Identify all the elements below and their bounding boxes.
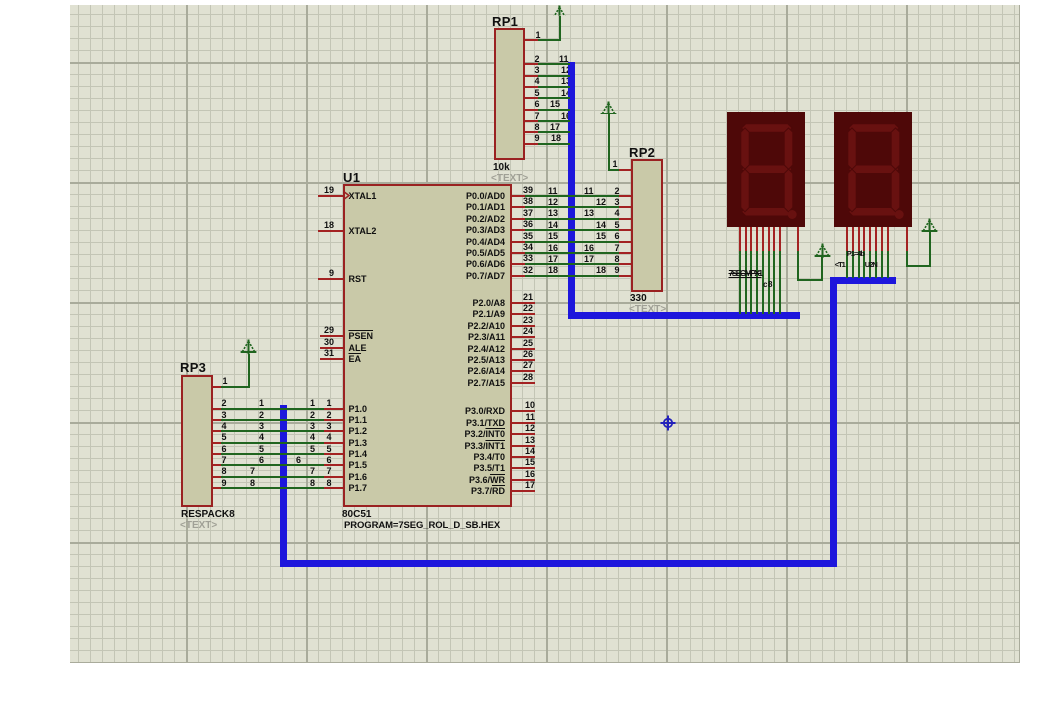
net label 8 right [310, 479, 315, 488]
RP1 pin number 1 [536, 31, 541, 40]
net label 2 right [310, 411, 315, 420]
pin number 32 [473, 266, 533, 275]
pin name P1.6 [349, 473, 368, 482]
pin number 33 [473, 254, 533, 263]
pin name P0.3 [445, 226, 505, 235]
pin name P2.3 [445, 333, 505, 342]
D2 segment pin 5 stub [869, 227, 871, 252]
U1 P2.0 stub [512, 302, 536, 304]
net label 13 mid [584, 209, 594, 218]
wire RP3 to U1 P1.3 [221, 442, 324, 444]
net label 15 [550, 100, 560, 109]
U1 P1.0 stub [324, 408, 343, 410]
RP3 pin 4 stub [213, 430, 221, 432]
U1 P1.5 stub [324, 464, 343, 466]
U1 pin 31 (EA) stub [320, 358, 343, 360]
pin number 27 [473, 361, 533, 370]
pin name P3.4 [445, 453, 505, 462]
U1 P2.4 stub [512, 348, 536, 350]
resistor pack RP3 [181, 375, 213, 508]
RP2 pin number 3 [615, 198, 620, 207]
wire U1 P0.5 to RP2 [525, 252, 619, 254]
U1 P3.0 stub [512, 410, 536, 412]
U1 pin number 4 [327, 433, 332, 442]
value RESPACK8 [181, 510, 235, 520]
net label 18 [551, 134, 561, 143]
U1 P0.3 stub [512, 229, 525, 231]
D1 segment pin 3 wire to bus [750, 251, 752, 314]
pin name P3.2 [445, 430, 505, 439]
RP3 pin number 5 [222, 433, 227, 442]
pin name P0.5 [445, 249, 505, 258]
RP1 pin number 3 [535, 66, 540, 75]
RP1 pin number 9 [535, 134, 540, 143]
wire to power A3 [798, 279, 823, 281]
D2 common wire down [906, 251, 908, 267]
net label 17 [548, 255, 558, 264]
D2 segment pin 7 stub [881, 227, 883, 252]
property text RP2 [629, 305, 666, 315]
U1 P2.5 stub [512, 359, 536, 361]
U1 P3.6 stub [512, 479, 536, 481]
pin name RST [349, 275, 367, 284]
net label 16 [561, 112, 571, 121]
U1 pin number 8 [327, 479, 332, 488]
pin number 36 [473, 220, 533, 229]
wire RP1 pin 2 to bus [538, 63, 570, 65]
RP1 pin 5 stub [525, 97, 539, 99]
pin name P2.4 [445, 345, 505, 354]
net label 3 right [310, 422, 315, 431]
pin name ALE [349, 344, 367, 353]
wire to power A5 [907, 265, 931, 267]
blue bus wire: right vertical [830, 277, 837, 567]
pin name P3.1 [445, 419, 505, 428]
pin name XTAL1 [349, 192, 377, 201]
D2 small text2 [865, 261, 877, 269]
wire RP3 to U1 P1.6 [221, 476, 324, 478]
D2 segment pin 3 wire to bus [858, 251, 860, 278]
U1 P3.4 stub [512, 456, 536, 458]
RP3 pin number 6 [222, 445, 227, 454]
RP2 pin 2 stub [619, 195, 631, 197]
net label 6 [259, 456, 264, 465]
U1 P3.1 stub [512, 422, 536, 424]
net label 2 [259, 411, 264, 420]
pin name P1.2 [349, 427, 368, 436]
U1 P2.7 stub [512, 382, 536, 384]
RP3 pin number 4 [222, 422, 227, 431]
U1 P1.7 stub [324, 487, 343, 489]
pin name P2.0 [445, 299, 505, 308]
blue bus wire: RP1 bus vertical [568, 62, 575, 320]
pin name P0.7 [445, 272, 505, 281]
U1 pin number 6 [327, 456, 332, 465]
RP3 pin number 1 [223, 377, 228, 386]
RP1 pin 9 stub [525, 143, 539, 145]
D1 segment pin 1 wire to bus [739, 251, 741, 314]
D2 segment pin 7 wire to bus [881, 251, 883, 278]
wire RP3 to U1 P1.0 [221, 408, 324, 410]
RP2 pin 6 stub [619, 241, 631, 243]
wire RP3 to U1 P1.1 [221, 419, 324, 421]
RP1 pin number 5 [535, 89, 540, 98]
RP1 pin number 6 [535, 100, 540, 109]
7-segment display D1 (left) [727, 112, 805, 227]
pin name P0.0 [445, 192, 505, 201]
net label 5 [259, 445, 264, 454]
U1 P2.6 stub [512, 370, 536, 372]
power symbol A1 (VCC above RP1) [551, 5, 568, 16]
wire up to power arrow A1 [559, 16, 561, 41]
RP2 pin 1 stub [619, 169, 632, 171]
net label 14 [548, 221, 558, 230]
pin number 11 [475, 413, 535, 422]
pin name P0.4 [445, 238, 505, 247]
D2 segment pin 8 stub [887, 227, 889, 252]
pin number 9 [274, 269, 334, 278]
pin name P3.5 [445, 464, 505, 473]
pin number 34 [473, 243, 533, 252]
net label 11 [548, 187, 558, 196]
RP3 pin 7 stub [213, 464, 221, 466]
net label 7 right [310, 467, 315, 476]
RP2 pin 3 stub [619, 206, 631, 208]
blue bus wire: horizontal under D2 [830, 277, 897, 284]
net label 4 [259, 433, 264, 442]
net label 12 [548, 198, 558, 207]
U1 P1.3 stub [324, 442, 343, 444]
pin number 12 [475, 424, 535, 433]
D1 segment pin 2 stub [745, 227, 747, 251]
wire up to power arrow A3 [821, 257, 823, 280]
pin name P2.7 [445, 379, 505, 388]
RP1 pin 3 stub [525, 75, 539, 77]
D2 segment pin 2 stub [852, 227, 854, 252]
pin number 25 [473, 339, 533, 348]
RP1 pin 2 stub [525, 63, 539, 65]
U1 pin 29 (PSEN) stub [320, 335, 343, 337]
D1 segment pin 7 stub [773, 227, 775, 251]
pin number 31 [274, 349, 334, 358]
U1 P0.1 stub [512, 206, 525, 208]
net label 15 mid [596, 232, 606, 241]
net label 12 mid [596, 198, 606, 207]
U1 P0.0 stub [512, 195, 525, 197]
pin name P1.3 [349, 439, 368, 448]
wire U1 P0.0 to RP2 [525, 195, 619, 197]
U1 P0.7 stub [512, 275, 525, 277]
RP2 pin 4 stub [619, 218, 631, 220]
resistor pack RP2 [631, 159, 663, 292]
D2 segment pin 2 wire to bus [852, 251, 854, 278]
RP1 pin 4 stub [525, 86, 539, 88]
wire RP1 pin 3 to bus [538, 75, 570, 77]
U1 pin number 5 [327, 445, 332, 454]
D1 common wire down [797, 251, 799, 281]
D1 segment pin 4 stub [756, 227, 758, 251]
RP1 pin number 4 [535, 77, 540, 86]
wire RP3 to U1 P1.2 [221, 430, 324, 432]
RP3 pin 5 stub [213, 442, 221, 444]
wire up to power arrow A2 [608, 113, 610, 170]
RP2 pin 7 stub [619, 252, 631, 254]
pin name P2.6 [445, 367, 505, 376]
property text RP1 [491, 174, 528, 184]
net label 11 mid [584, 187, 594, 196]
net label 4 right [310, 433, 315, 442]
D2 segment pin 5 wire to bus [869, 251, 871, 278]
pin number 17 [475, 481, 535, 490]
program property text [344, 521, 500, 531]
wire U1 P0.7 to RP2 [525, 275, 619, 277]
RP3 pin number 2 [222, 399, 227, 408]
U1 P3.3 stub [512, 445, 536, 447]
blue bus wire: horizontal under D1 [568, 312, 800, 319]
label RP1 [492, 15, 518, 28]
RP2 pin number 1 [613, 160, 618, 169]
wire RP2 pin1 to power [608, 169, 619, 171]
net label 17 [550, 123, 560, 132]
7-segment display D2 (right) [834, 112, 912, 227]
U1 pin number 7 [327, 467, 332, 476]
D1 segment pin 1 stub [739, 227, 741, 251]
U1 P0.4 stub [512, 241, 525, 243]
net label 13 [548, 209, 558, 218]
net label 11 [559, 55, 569, 64]
pin name P1.0 [349, 405, 368, 414]
pin name P2.2 [445, 322, 505, 331]
label RP3 [180, 361, 206, 374]
RP1 pin 8 stub [525, 131, 539, 133]
wire U1 P0.1 to RP2 [525, 206, 619, 208]
D1 segment pin 6 stub [768, 227, 770, 251]
U1 P0.6 stub [512, 263, 525, 265]
U1 P2.1 stub [512, 313, 536, 315]
RP1 pin number 8 [535, 123, 540, 132]
pin name P0.1 [445, 203, 505, 212]
pin number 22 [473, 304, 533, 313]
RP3 pin 6 stub [213, 453, 221, 455]
U1 pin 30 (ALE) stub [320, 347, 343, 349]
D1 segment pin 8 wire to bus [779, 251, 781, 314]
U1 P3.5 stub [512, 467, 536, 469]
U1 P0.2 stub [512, 218, 525, 220]
RP1 pin 7 stub [525, 120, 539, 122]
U1 P2.3 stub [512, 336, 536, 338]
pin name EA [349, 355, 362, 364]
pin number 10 [475, 401, 535, 410]
net label 1 right [310, 399, 315, 408]
D1 part text [729, 269, 762, 277]
D1 small text [763, 281, 773, 289]
U1 P1.4 stub [324, 453, 343, 455]
pin number 19 [274, 186, 334, 195]
U1 P1.1 stub [324, 419, 343, 421]
wire RP1 pin1 to power [538, 39, 561, 41]
label U1 [343, 171, 360, 184]
D2 segment pin 1 wire to bus [846, 251, 848, 278]
U1 P0.5 stub [512, 252, 525, 254]
RP2 pin number 8 [615, 255, 620, 264]
pin number 30 [274, 338, 334, 347]
D2 segment pin 6 wire to bus [875, 251, 877, 278]
U1 P1.2 stub [324, 430, 343, 432]
power symbol A5 (common of D2) [921, 218, 938, 233]
RP2 pin 5 stub [619, 229, 631, 231]
RP3 pin 9 stub [213, 487, 221, 489]
RP2 pin number 4 [615, 209, 620, 218]
net label 12 [561, 66, 571, 75]
U1 P2.2 stub [512, 325, 536, 327]
D2 segment pin 8 wire to bus [887, 251, 889, 278]
wire RP3 pin1 to power [221, 386, 250, 388]
net label 8 [250, 479, 255, 488]
part name 80C51 [342, 510, 371, 520]
D1 segment pin 2 wire to bus [745, 251, 747, 314]
wire RP1 pin 9 to bus [538, 143, 570, 145]
pin number 23 [473, 316, 533, 325]
wire U1 P0.2 to RP2 [525, 218, 619, 220]
pin name P1.4 [349, 450, 368, 459]
value 330 [630, 294, 647, 304]
RP3 pin number 7 [222, 456, 227, 465]
D1 segment pin 7 wire to bus [773, 251, 775, 314]
U1 P3.7 stub [512, 490, 536, 492]
pin name P0.2 [445, 215, 505, 224]
net label 18 mid [596, 266, 606, 275]
U1 P1.6 stub [324, 476, 343, 478]
power symbol A2 (VCC above RP2) [600, 101, 617, 114]
D1 segment pin 4 wire to bus [756, 251, 758, 314]
RP3 pin 8 stub [213, 476, 221, 478]
wire RP1 pin 7 to bus [538, 120, 570, 122]
wire RP1 pin 6 to bus [538, 109, 570, 111]
RP2 pin number 2 [615, 187, 620, 196]
wire up to power arrow A5 [929, 231, 931, 267]
RP2 pin number 5 [615, 221, 620, 230]
RP3 pin number 3 [222, 411, 227, 420]
U1 pin 18 (XTAL2) stub [318, 230, 343, 232]
RP3 pin 3 stub [213, 419, 221, 421]
RP1 pin 6 stub [525, 109, 539, 111]
net label 18 [548, 266, 558, 275]
wire RP1 pin 5 to bus [538, 97, 570, 99]
RP2 pin 9 stub [619, 275, 631, 277]
pin name P2.1 [445, 310, 505, 319]
D2 segment pin 3 stub [858, 227, 860, 252]
net label 15 [548, 232, 558, 241]
net label 6 right [296, 456, 301, 465]
net label 5 right [310, 445, 315, 454]
U1 pin number 2 [327, 411, 332, 420]
pin number 15 [475, 458, 535, 467]
pin number 26 [473, 350, 533, 359]
wire RP3 to U1 P1.4 [221, 453, 324, 455]
net label 14 mid [596, 221, 606, 230]
power symbol A3 (common of D1) [814, 243, 831, 259]
XTAL1 pin marker [343, 191, 351, 200]
net label 14 [561, 89, 571, 98]
value 10k [493, 163, 510, 173]
pin number 24 [473, 327, 533, 336]
RP3 pin 1 stub [213, 386, 221, 388]
pin number 13 [475, 436, 535, 445]
pin number 28 [473, 373, 533, 382]
pin name P1.5 [349, 461, 368, 470]
pin name P3.0 [445, 407, 505, 416]
wire U1 P0.3 to RP2 [525, 229, 619, 231]
D2 segment pin 4 wire to bus [863, 251, 865, 278]
D1 segment pin 5 stub [762, 227, 764, 251]
net label 3 [259, 422, 264, 431]
D1 segment pin 8 stub [779, 227, 781, 251]
microcontroller U1 80C51 [343, 184, 512, 508]
D2 segment pin 6 stub [875, 227, 877, 252]
D2 small text1 [835, 261, 845, 269]
pin number 39 [473, 186, 533, 195]
net label 1 [259, 399, 264, 408]
net label 13 [561, 77, 571, 86]
RP2 pin number 9 [615, 266, 620, 275]
U1 pin 19 (XTAL1) stub [318, 195, 343, 197]
RP3 pin number 8 [222, 467, 227, 476]
D1 segment pin 5 wire to bus [762, 251, 764, 314]
RP1 pin 1 stub [525, 39, 539, 41]
net label 7 [250, 467, 255, 476]
blue bus wire: left vertical to P1.0 [280, 405, 287, 567]
pin name P1.7 [349, 484, 368, 493]
wire up to power arrow A4 [248, 354, 250, 387]
D1 segment pin 6 wire to bus [768, 251, 770, 314]
wire RP1 pin 8 to bus [538, 131, 570, 133]
pin number 21 [473, 293, 533, 302]
pin number 18 [274, 221, 334, 230]
pin number 16 [475, 470, 535, 479]
RP2 pin 8 stub [619, 263, 631, 265]
pin name P0.6 [445, 260, 505, 269]
RP2 pin number 6 [615, 232, 620, 241]
D2 segment pin 4 stub [863, 227, 865, 252]
pin name P3.6 [445, 476, 505, 485]
pin number 35 [473, 232, 533, 241]
blue bus wire: bottom horizontal [280, 560, 837, 567]
pin name P3.7 [445, 487, 505, 496]
net label 16 mid [584, 244, 594, 253]
D1 segment pin 3 stub [750, 227, 752, 251]
property text RP3 [180, 521, 217, 531]
U1 pin number 3 [327, 422, 332, 431]
U1 pin number 1 [327, 399, 332, 408]
pin name P2.5 [445, 356, 505, 365]
D2 part text [847, 250, 864, 258]
RP1 pin number 7 [535, 112, 540, 121]
wire RP3 to U1 P1.7 [221, 487, 324, 489]
pin name P3.3 [445, 442, 505, 451]
pin number 14 [475, 447, 535, 456]
pin number 38 [473, 197, 533, 206]
net label 16 [548, 244, 558, 253]
wire RP1 pin 4 to bus [538, 86, 570, 88]
pin name P1.1 [349, 416, 368, 425]
RP1 pin number 2 [535, 55, 540, 64]
D2 segment pin 1 stub [846, 227, 848, 252]
D2 common pin stub [906, 227, 908, 252]
U1 P3.2 stub [512, 433, 536, 435]
wire U1 P0.6 to RP2 [525, 263, 619, 265]
RP2 pin number 7 [615, 244, 620, 253]
wire RP3 to U1 P1.5 [221, 464, 324, 466]
